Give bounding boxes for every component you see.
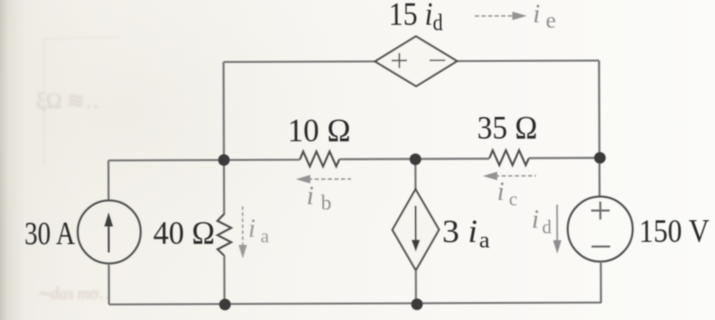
wire: 30A branch top vertical — [107, 160, 109, 200]
current arrow ia (downward beside 40 ohm) — [238, 206, 247, 258]
resistor 10 ohm (zigzag on middle rail) — [300, 151, 340, 166]
voltage source 150V (circle) — [568, 196, 633, 261]
wire: top rail from node above 40ohm branch to top-right corner — [224, 61, 599, 62]
svg-text:35 Ω: 35 Ω — [477, 109, 537, 146]
current arrow ic (leftward under 35 ohm) — [483, 172, 536, 181]
node dot at x=224 middle rail — [218, 154, 230, 166]
wire: 40-ohm branch upper segment — [223, 160, 225, 214]
arrow inside 30A source — [104, 212, 113, 252]
wire: middle rail segment between resistors — [339, 158, 489, 161]
wire: 3ia branch lower segment — [415, 270, 417, 304]
node dot at x=415 middle rail — [410, 153, 422, 165]
current source 30A (circle) — [78, 200, 141, 263]
minus sign inside 15id diamond — [430, 59, 446, 61]
current arrow id (downward left of 150V) — [553, 205, 562, 254]
bleed-through text (mirrored ohms) — [36, 88, 100, 113]
wire: bottom rail — [109, 303, 601, 305]
wire: middle rail segment from 35 ohm to right node — [529, 157, 600, 159]
node dot at x=224 bottom rail — [219, 299, 231, 311]
resistor 40 ohm (vertical zigzag) — [217, 214, 231, 256]
plus sign inside 15id diamond — [392, 53, 407, 68]
wire: 30A branch bottom vertical — [108, 263, 110, 304]
current arrow ie (top, rightward) — [475, 12, 527, 21]
wire: right vertical upper (top rail to 150V source) — [598, 61, 601, 197]
svg-text:150 V: 150 V — [639, 212, 709, 250]
wire: middle rail segment from 30A branch to 10-ohm resistor — [108, 159, 299, 162]
node dot at x=416 bottom rail — [411, 298, 423, 310]
dependent voltage source 15id (diamond on top rail) — [375, 36, 457, 86]
svg-text:10 Ω: 10 Ω — [287, 111, 350, 148]
bleed-through frame from reverse page — [44, 37, 120, 166]
bleed-through handwriting bottom left — [36, 284, 110, 303]
wire: left inner vertical (x=224) from top rail to middle rail — [222, 62, 224, 160]
resistor 35 ohm (zigzag on middle rail) — [489, 150, 529, 165]
wire: 3ia branch upper segment — [414, 159, 416, 189]
arrow inside 3ia diamond — [411, 206, 420, 252]
node dot at x=600 middle rail — [594, 152, 606, 164]
wire: 40-ohm branch lower segment — [223, 255, 225, 304]
dependent current source 3ia (diamond) — [392, 189, 439, 270]
plus sign inside 150V — [591, 202, 610, 220]
minus sign inside 150V — [592, 246, 611, 248]
svg-text:∼das mʊ‥: ∼das mʊ‥ — [36, 284, 110, 303]
wire: right vertical lower (150V to bottom rail) — [600, 262, 602, 303]
current arrow ib (leftward under 10 ohm) — [296, 175, 351, 184]
svg-text:ξΩ ≋‥: ξΩ ≋‥ — [36, 88, 100, 113]
svg-text:30 A: 30 A — [24, 215, 75, 252]
svg-text:40 Ω: 40 Ω — [153, 215, 215, 251]
